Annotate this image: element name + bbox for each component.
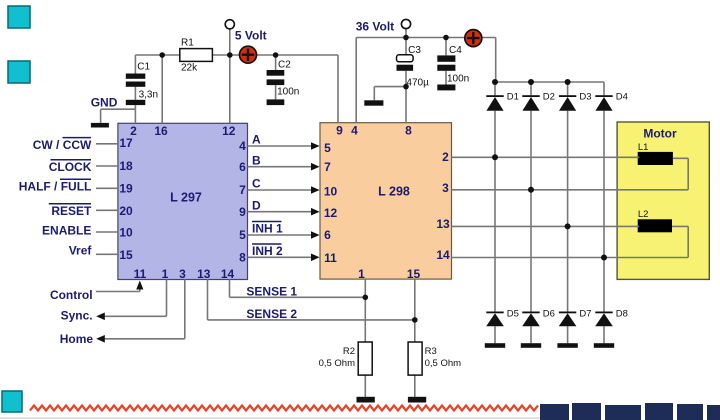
svg-text:L 297: L 297 <box>170 191 202 205</box>
svg-text:SENSE 1: SENSE 1 <box>246 284 297 298</box>
svg-text:R3: R3 <box>425 346 437 357</box>
svg-text:C1: C1 <box>137 62 150 73</box>
wire Vref input <box>96 253 118 255</box>
wire phase C with arrow <box>248 186 320 194</box>
wire diode column D1/D5 <box>494 111 496 312</box>
diode D7 <box>559 309 592 327</box>
svg-text:3: 3 <box>442 181 449 195</box>
wire +36V corner down to diode rail <box>495 38 497 83</box>
ground bar for C4 <box>437 85 455 91</box>
svg-text:12: 12 <box>222 124 236 138</box>
diode D8 <box>595 309 628 327</box>
L298 pin numbers top: 9 4 8 <box>336 124 412 138</box>
wire R1 right to +5V node <box>212 54 256 56</box>
wire diode top rail <box>495 81 604 83</box>
wire SENSE 2 net <box>208 280 415 320</box>
input label HALF/FULL <box>19 179 92 193</box>
svg-text:2: 2 <box>442 150 449 164</box>
svg-text:4: 4 <box>239 139 246 153</box>
capacitor C2 100n <box>267 60 300 98</box>
wire net C pin13 to L2 <box>452 225 640 227</box>
svg-text:L1: L1 <box>638 142 649 153</box>
L298 pin numbers right: 2 3 13 14 <box>436 150 450 262</box>
svg-text:11: 11 <box>324 251 337 265</box>
diode D6 <box>522 309 555 327</box>
svg-text:12: 12 <box>324 206 338 220</box>
+36V node (red plus) <box>465 30 482 47</box>
svg-text:HALF / FULL: HALF / FULL <box>19 180 92 194</box>
L297 pin numbers top: 2 16 12 <box>130 124 236 138</box>
svg-text:Control: Control <box>50 288 93 302</box>
wire GND drop <box>100 109 102 123</box>
wire HALF/FULL input <box>96 187 118 189</box>
edge artifact: red wavy line <box>30 406 538 411</box>
wire INH2 with arrow <box>248 254 320 262</box>
wire net D pin14 to L2 return <box>452 226 689 257</box>
svg-text:R1: R1 <box>181 38 194 49</box>
edge artifact: faint bottom rule <box>0 418 540 419</box>
svg-text:15: 15 <box>407 267 421 281</box>
svg-text:INH 2: INH 2 <box>252 244 283 258</box>
wire 36V rail <box>356 37 496 39</box>
L298 pin numbers left: 5 7 10 12 6 11 <box>324 141 338 265</box>
capacitor C4 100n <box>437 45 469 84</box>
svg-text:470µ: 470µ <box>406 77 429 88</box>
wire pin16 stub <box>161 55 163 123</box>
svg-text:Vref: Vref <box>69 244 93 258</box>
wire INH1 with arrow <box>248 231 320 239</box>
wire diode column D4/D8 <box>603 111 605 312</box>
svg-text:GND: GND <box>91 96 118 110</box>
inductor L2 (motor winding) <box>638 209 672 232</box>
svg-text:13: 13 <box>436 217 450 231</box>
input label CLOCK <box>49 160 92 174</box>
wire CW/CCW input <box>96 143 118 145</box>
svg-text:Home: Home <box>60 332 94 346</box>
wire 5V terminal stem down to pin 12 <box>229 29 231 124</box>
diode D2 <box>522 92 555 111</box>
svg-text:INH 1: INH 1 <box>252 222 283 236</box>
wire L298 pin1 column to R2 <box>364 279 366 397</box>
IC U1 L297 body <box>118 123 248 279</box>
wire net A pin2 to L1 <box>452 156 640 158</box>
wire net B pin3 to L1 return <box>452 158 689 190</box>
edge artifact: cyan square top-left 2 <box>8 61 30 83</box>
svg-text:8: 8 <box>239 251 246 265</box>
label INH 2 <box>252 244 283 258</box>
ground bar D7 <box>557 343 577 348</box>
resistor R3 0,5 Ohm <box>408 342 461 375</box>
L297 pin numbers left: 17 18 19 20 10 15 <box>119 136 133 262</box>
diode D1 <box>486 92 519 111</box>
wire C1 lower lead <box>134 87 136 109</box>
ground bar R2 <box>357 397 375 403</box>
L297 pin numbers right: 4 6 7 9 5 8 <box>239 139 246 264</box>
capacitor C3 470u electrolytic <box>397 45 430 88</box>
wire C3 ground branch <box>374 87 406 101</box>
input label CW/CCW <box>33 138 92 152</box>
svg-text:D1: D1 <box>507 92 519 103</box>
wire L298 pin15 column to R3 <box>414 279 416 397</box>
svg-text:C: C <box>252 176 261 190</box>
svg-text:0,5 Ohm: 0,5 Ohm <box>319 358 356 369</box>
wire C3 column to pin 8 <box>405 38 407 124</box>
wire diode column D2/D6 <box>530 111 532 312</box>
resistor R2 0,5 Ohm <box>319 342 373 375</box>
L297 pin numbers bottom: 11 1 3 13 14 <box>134 267 235 281</box>
diode D4 <box>595 92 628 111</box>
wire ENABLE input <box>96 231 118 233</box>
edge artifact: cyan square bottom-left <box>2 391 22 412</box>
svg-text:B: B <box>252 153 261 167</box>
svg-text:C2: C2 <box>278 60 291 71</box>
svg-text:D2: D2 <box>543 92 555 103</box>
svg-text:ENABLE: ENABLE <box>42 224 91 238</box>
IC U2 L298 body <box>320 123 452 279</box>
svg-text:3: 3 <box>179 267 186 281</box>
svg-text:20: 20 <box>119 204 133 218</box>
svg-text:3,3n: 3,3n <box>139 89 158 100</box>
edge artifact: cyan square top-left 1 <box>8 6 30 28</box>
L298 pin numbers bottom: 1 15 <box>358 267 420 281</box>
wire SENSE 1 net <box>230 280 366 298</box>
svg-text:C4: C4 <box>449 45 462 56</box>
svg-text:9: 9 <box>239 205 246 219</box>
wire 5V rail to L298 pin 9 <box>257 55 339 123</box>
wire Home from pin 3 with left arrow <box>96 280 185 343</box>
wire R1 left <box>135 54 179 56</box>
ground bar D8 <box>594 343 614 348</box>
wire L298 pin4 drop <box>355 38 357 124</box>
inductor L1 (motor winding) <box>638 142 673 165</box>
5 Volt terminal <box>225 20 266 43</box>
diode D5 <box>486 309 519 327</box>
svg-text:D4: D4 <box>616 92 628 103</box>
ground bar D5 <box>485 343 505 348</box>
ground bar R3 <box>408 397 426 403</box>
wire phase B with arrow <box>248 163 320 171</box>
wire phase D with arrow <box>248 208 320 216</box>
wire Control to pin 11 with up arrow <box>96 281 143 292</box>
svg-text:14: 14 <box>221 267 235 281</box>
ground symbol GND top-left <box>91 96 118 128</box>
svg-text:9: 9 <box>336 124 343 138</box>
svg-text:10: 10 <box>119 226 133 240</box>
wire RESET input <box>96 209 118 211</box>
svg-text:10: 10 <box>324 185 338 199</box>
wire phase A with arrow <box>248 142 320 150</box>
wire diode column stubs top <box>495 82 604 95</box>
svg-text:D7: D7 <box>579 309 591 320</box>
+5V node (red plus) <box>240 46 257 63</box>
svg-text:18: 18 <box>119 159 133 173</box>
motor block <box>617 122 709 279</box>
wire C4 leads <box>445 38 447 85</box>
wire diode column D3/D7 <box>567 111 569 312</box>
svg-text:8: 8 <box>405 124 412 138</box>
svg-text:R2: R2 <box>343 346 355 357</box>
svg-text:CW / CCW: CW / CCW <box>33 138 92 152</box>
svg-text:4: 4 <box>351 124 358 138</box>
svg-text:Sync.: Sync. <box>61 308 93 322</box>
svg-text:7: 7 <box>239 183 246 197</box>
svg-text:100n: 100n <box>277 86 299 97</box>
svg-text:11: 11 <box>134 267 147 281</box>
wire CLOCK input <box>96 165 118 167</box>
svg-text:D: D <box>252 198 261 212</box>
wire 36V terminal stem <box>405 29 407 38</box>
edge artifact: dark band bottom-right <box>540 403 720 420</box>
svg-text:CLOCK: CLOCK <box>49 160 92 174</box>
svg-text:100n: 100n <box>447 73 469 84</box>
capacitor C1 3,3n <box>126 62 158 106</box>
wire bottom diode ground stubs <box>495 326 604 343</box>
svg-text:RESET: RESET <box>51 204 92 218</box>
wire GND rail <box>101 108 136 110</box>
diode D3 <box>559 92 592 111</box>
svg-text:D3: D3 <box>579 92 591 103</box>
svg-text:D8: D8 <box>616 309 628 320</box>
svg-text:6: 6 <box>239 160 246 174</box>
svg-text:1: 1 <box>162 267 169 281</box>
svg-text:36 Volt: 36 Volt <box>356 20 394 34</box>
label INH 1 <box>252 222 283 236</box>
svg-text:L2: L2 <box>638 209 649 220</box>
svg-text:19: 19 <box>119 182 133 196</box>
svg-text:5: 5 <box>324 141 331 155</box>
svg-text:D6: D6 <box>543 309 555 320</box>
svg-text:L 298: L 298 <box>378 185 410 199</box>
svg-text:0,5 Ohm: 0,5 Ohm <box>425 358 462 369</box>
svg-text:22k: 22k <box>181 63 198 74</box>
svg-text:Motor: Motor <box>643 127 677 141</box>
svg-text:16: 16 <box>154 124 168 138</box>
svg-text:14: 14 <box>436 248 450 262</box>
svg-text:6: 6 <box>324 228 331 242</box>
wire C2 leads <box>275 55 277 99</box>
svg-text:1: 1 <box>358 267 365 281</box>
input label RESET <box>49 204 92 218</box>
svg-text:A: A <box>252 133 261 147</box>
36 Volt terminal <box>356 19 411 33</box>
ground bar D6 <box>521 343 541 348</box>
svg-text:13: 13 <box>197 267 211 281</box>
resistor R1 22k <box>180 38 213 74</box>
svg-text:D5: D5 <box>507 309 519 320</box>
svg-text:SENSE 2: SENSE 2 <box>246 307 297 321</box>
svg-text:17: 17 <box>119 136 133 150</box>
wire Sync from pin 1 with left arrow <box>96 280 166 321</box>
svg-text:5 Volt: 5 Volt <box>235 29 267 43</box>
svg-text:15: 15 <box>119 248 133 262</box>
svg-text:5: 5 <box>239 228 246 242</box>
svg-text:7: 7 <box>324 160 331 174</box>
ground symbol for C3 <box>364 100 383 105</box>
wire pin2 stub <box>134 109 136 123</box>
wire C1 top lead <box>134 55 136 74</box>
ground bar for C2 <box>267 99 285 105</box>
